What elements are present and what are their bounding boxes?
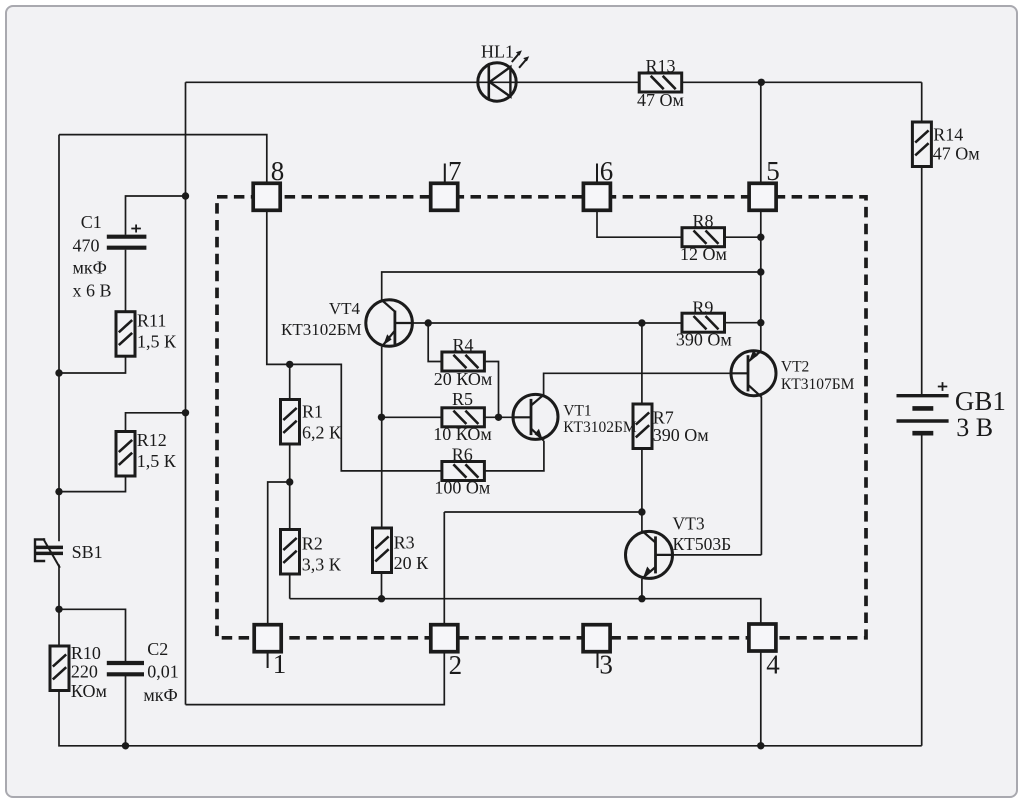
transistor VT1	[513, 394, 558, 440]
wire R13 to right corner	[682, 81, 922, 83]
junction R11 / left rail	[55, 369, 62, 376]
svg-text:220: 220	[71, 661, 98, 681]
wire R5 left lead	[382, 416, 442, 418]
pin 5 of DD1	[749, 183, 776, 210]
pin 1 of DD1	[254, 625, 281, 652]
svg-text:R5: R5	[452, 389, 473, 409]
junction R12 / left rail	[55, 488, 62, 495]
wire C1 to R11	[125, 250, 127, 312]
resistor R7	[633, 404, 652, 449]
svg-text:VT4: VT4	[329, 299, 361, 318]
junction R3 bottom	[378, 595, 385, 602]
svg-text:5: 5	[766, 156, 780, 186]
transistor VT4	[366, 300, 413, 347]
pin 1 tick	[267, 652, 269, 668]
wire VT3 base	[673, 554, 762, 556]
wire R2 bottom lead	[289, 574, 291, 599]
svg-text:R10: R10	[71, 643, 101, 663]
svg-text:3: 3	[599, 649, 613, 679]
wire R7 to VT3 collector	[641, 446, 643, 531]
svg-text:R14: R14	[933, 125, 963, 145]
wire SB1 to R10	[58, 565, 60, 647]
wire VT3 emitter lead	[641, 579, 643, 599]
svg-text:КОм: КОм	[71, 681, 107, 701]
resistor R10	[50, 646, 69, 691]
LED HL1	[478, 50, 529, 101]
resistor R9	[682, 313, 725, 332]
resistor R6	[442, 462, 485, 481]
wire bottom ground rail	[59, 691, 922, 746]
svg-text:R4: R4	[452, 335, 473, 355]
svg-text:7: 7	[448, 156, 462, 186]
transistor VT3	[626, 531, 673, 579]
junction R7 top	[638, 319, 645, 326]
svg-text:47 Ом: 47 Ом	[933, 144, 980, 164]
svg-text:мкФ: мкФ	[73, 258, 107, 278]
junction C1 / left vertical	[182, 192, 189, 199]
wire emitter bus to pin 4	[290, 599, 761, 624]
svg-text:1,5 К: 1,5 К	[137, 331, 177, 351]
wire R9 right lead	[724, 322, 761, 324]
svg-text:R12: R12	[137, 430, 167, 450]
svg-text:КТ503Б: КТ503Б	[673, 534, 732, 554]
svg-text:VT2: VT2	[781, 358, 809, 375]
svg-text:47 Ом: 47 Ом	[637, 90, 684, 110]
svg-text:x 6 В: x 6 В	[73, 280, 112, 300]
svg-text:8: 8	[271, 156, 285, 186]
wire GB1 to ground rail	[921, 435, 923, 746]
wire VT2 collector down	[760, 397, 762, 555]
capacitor C2	[107, 663, 144, 674]
pin 6 of DD1	[583, 183, 610, 210]
wire to R14 top	[921, 82, 923, 122]
resistor R2	[281, 530, 300, 575]
wire R4 right lead	[485, 362, 499, 418]
resistor R1	[281, 400, 300, 445]
battery GB1	[897, 382, 949, 433]
svg-text:390 Ом: 390 Ом	[653, 425, 709, 445]
pin 2 of DD1	[431, 625, 458, 652]
pin 7 of DD1	[431, 183, 458, 210]
IC DD1 dashed boundary box	[217, 197, 866, 638]
wire R11 bottom	[59, 356, 126, 373]
svg-text:R2: R2	[302, 534, 323, 554]
wire bottom to pin 2	[186, 652, 445, 705]
svg-text:R6: R6	[452, 444, 473, 464]
resistor R3	[373, 528, 392, 573]
svg-text:3 В: 3 В	[956, 413, 993, 442]
wire pin 4 to ground rail	[760, 651, 762, 746]
junction top rail / pin5 branch	[758, 79, 765, 86]
svg-text:мкФ: мкФ	[143, 685, 177, 705]
svg-text:GB1: GB1	[955, 386, 1006, 416]
wire VT4 base bus to R9	[413, 322, 683, 324]
svg-text:R11: R11	[137, 311, 166, 331]
wire R12 bottom	[59, 476, 126, 492]
svg-text:КТ3102БМ: КТ3102БМ	[563, 419, 637, 436]
junction R9 / pin5 line	[757, 319, 764, 326]
svg-text:R13: R13	[645, 56, 675, 76]
wire R5 right to VT1 base	[485, 416, 514, 418]
junction R1 top	[286, 361, 293, 368]
wire VT1 collector to VT2 base	[544, 373, 731, 394]
svg-text:VT1: VT1	[563, 403, 591, 420]
wire pin 8 to R6	[267, 210, 442, 471]
pin 8 of DD1	[253, 183, 280, 210]
wire C1 top lead	[126, 196, 186, 235]
resistor R14	[912, 122, 931, 167]
svg-text:12 Ом: 12 Ом	[680, 244, 727, 264]
wire R1 top lead	[289, 364, 291, 399]
junction R8 / pin5 line	[757, 234, 764, 241]
junction R4 / R5	[495, 414, 502, 421]
pin 4 of DD1	[749, 624, 776, 651]
svg-text:470: 470	[73, 236, 100, 256]
junction R7 / VT3 collector	[638, 508, 645, 515]
svg-text:R1: R1	[302, 402, 323, 422]
svg-text:390 Ом: 390 Ом	[676, 330, 732, 350]
pin 3 tick	[597, 653, 599, 669]
pin 7 tick	[444, 164, 446, 183]
svg-text:C1: C1	[81, 212, 102, 232]
svg-text:R9: R9	[692, 298, 713, 318]
resistor R4	[442, 352, 485, 371]
transistor VT2	[731, 350, 776, 397]
wire C2 bottom lead	[125, 676, 127, 746]
wire R14 to GB1	[921, 167, 923, 395]
svg-text:100 Ом: 100 Ом	[434, 478, 490, 498]
svg-text:6,2 К: 6,2 К	[302, 423, 342, 443]
svg-text:1: 1	[273, 649, 287, 679]
wire to pin 8 top	[59, 135, 267, 184]
svg-text:КТ3102БМ: КТ3102БМ	[281, 320, 362, 339]
svg-text:1,5 К: 1,5 К	[137, 451, 177, 471]
wire pin 5 to VT2 emitter	[760, 210, 762, 350]
svg-text:4: 4	[766, 649, 780, 679]
wire R3 bottom lead	[381, 573, 383, 599]
switch SB1	[34, 538, 63, 568]
resistor R8	[682, 228, 725, 247]
wire left rail upper	[58, 135, 60, 542]
wire R12 top lead	[126, 413, 186, 432]
svg-text:VT3: VT3	[673, 514, 705, 534]
wire left long vertical	[185, 82, 187, 704]
wire pin 2 to R7/VT3	[444, 511, 642, 513]
wire top rail through HL1 to R13	[186, 81, 640, 83]
wire VT4 collector to pin5 line	[382, 272, 761, 300]
wire to pin 1 top	[268, 482, 290, 625]
junction pin 4 / ground rail	[757, 742, 764, 749]
svg-text:C2: C2	[147, 639, 168, 659]
wire R6 to VT1 emitter	[484, 441, 544, 471]
junction SB1 / R10 / C2	[55, 606, 62, 613]
svg-text:R3: R3	[394, 532, 415, 552]
wire R8 right lead	[724, 236, 761, 238]
junction C2 / ground rail	[122, 742, 129, 749]
resistor R13	[639, 73, 682, 92]
svg-text:0,01: 0,01	[147, 661, 179, 681]
svg-text:SB1: SB1	[72, 542, 103, 562]
wire R1 to R2	[289, 444, 291, 530]
junction R12 / left vertical	[182, 409, 189, 416]
svg-text:20 КОм: 20 КОм	[434, 369, 492, 389]
junction R1 / R2 / pin1	[286, 478, 293, 485]
svg-text:3,3 К: 3,3 К	[302, 555, 342, 575]
svg-text:6: 6	[600, 156, 614, 186]
wire pin 5 top vertical	[760, 82, 762, 183]
wire pin 6 to R8	[597, 210, 682, 237]
wire R7 top lead	[641, 323, 643, 404]
resistor R11	[116, 312, 135, 357]
wire VT4 emitter to R3	[381, 347, 383, 528]
wire pin 2 top vertical	[443, 512, 445, 625]
svg-text:10 КОм: 10 КОм	[433, 424, 491, 444]
resistor R12	[116, 432, 135, 477]
svg-text:HL1: HL1	[481, 42, 514, 62]
capacitor C1	[107, 225, 147, 248]
junction collector rail	[757, 268, 764, 275]
resistor R5	[442, 408, 485, 427]
svg-text:2: 2	[449, 650, 463, 680]
svg-text:R8: R8	[692, 211, 713, 231]
junction VT4 base / R4	[425, 319, 432, 326]
svg-text:20 К: 20 К	[394, 553, 430, 573]
junction VT3 emitter	[638, 595, 645, 602]
pin 6 tick	[596, 164, 598, 183]
svg-text:КТ3107БМ: КТ3107БМ	[781, 376, 855, 393]
wire C2 top lead	[59, 609, 126, 661]
pin 3 of DD1	[583, 625, 610, 652]
wire R4 left lead	[428, 323, 442, 362]
junction VT4 emitter / R5	[378, 414, 385, 421]
